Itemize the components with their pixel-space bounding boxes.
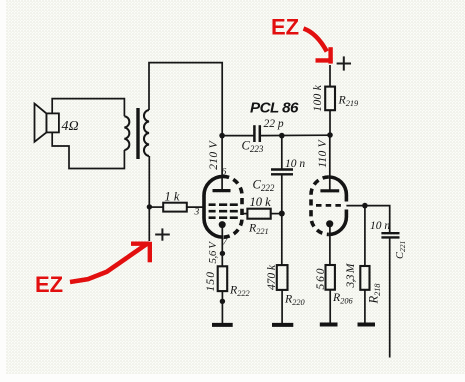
pentode envelope (left half solid) (204, 176, 223, 237)
ground under R222 (212, 323, 233, 327)
node C222 top junction (279, 133, 285, 139)
svg-text:7: 7 (223, 238, 229, 248)
wire R220 to ground (281, 290, 283, 323)
node feedback junction (147, 204, 152, 209)
wire HT rail right segment (260, 134, 330, 136)
svg-text:6: 6 (222, 168, 227, 178)
triode anode lead (329, 135, 331, 191)
wire R218 to ground (364, 290, 366, 323)
triode cathode lead to R206 (329, 227, 331, 266)
svg-text:C221: C221 (395, 241, 407, 259)
wire R221 to node (271, 213, 282, 215)
ground under R218 (358, 323, 376, 327)
pentode anode bar (213, 189, 231, 192)
svg-text:150: 150 (205, 272, 217, 292)
wire junction to resistor 1k (149, 206, 163, 208)
resistor R222 150 (218, 266, 228, 291)
svg-text:R206: R206 (332, 290, 354, 305)
triode grid dashed (316, 204, 344, 207)
node cathode junction (220, 251, 225, 256)
svg-text:R221: R221 (248, 221, 269, 236)
wire C222 top (281, 136, 283, 169)
wire R206 to ground (329, 290, 331, 323)
pentode cathode lead to R222 (221, 227, 223, 266)
svg-text:EZ: EZ (35, 272, 63, 297)
pentode envelope (right half dashed) (223, 176, 242, 237)
pentode cathode (219, 221, 226, 228)
node HT junction (327, 132, 333, 138)
capacitor C223 22p plates (254, 125, 259, 142)
triode anode bar (320, 189, 339, 192)
svg-text:PCL 86: PCL 86 (250, 100, 299, 117)
ground under R220 (272, 323, 293, 327)
white scan margins (0, 374, 465, 382)
svg-text:470 k: 470 k (266, 264, 278, 290)
svg-text:4Ω: 4Ω (62, 119, 79, 134)
wire top supply stub (329, 65, 331, 87)
svg-text:110 V: 110 V (317, 138, 329, 167)
transformer secondary winding (124, 116, 129, 150)
svg-text:560: 560 (315, 268, 327, 289)
wire grid node down to R218 (364, 206, 366, 266)
node grid junction (362, 203, 368, 209)
resistor R219 100k (325, 87, 335, 111)
node pentode anode junction (219, 133, 225, 139)
svg-text:3,3 M: 3,3 M (345, 262, 357, 288)
pentode grid dashes (209, 205, 238, 218)
triode envelope (left half dashed) (311, 177, 329, 234)
wire speaker bottom loop (52, 132, 124, 168)
resistor R218 3,3M (360, 266, 369, 290)
svg-text:R220: R220 (284, 292, 306, 307)
test point + top (337, 56, 351, 70)
resistor R221 10k (247, 209, 270, 219)
svg-text:R222: R222 (229, 283, 250, 298)
resistor 1k (163, 203, 187, 212)
ground under R206 (320, 323, 338, 327)
svg-text:210 V: 210 V (208, 139, 220, 169)
transformer core (136, 108, 139, 159)
node below R222 (220, 299, 225, 304)
wire R222 to ground (221, 291, 223, 323)
speaker LS 4Ω (35, 104, 59, 142)
node R221 junction (279, 211, 285, 217)
wire C222 bottom to R220 (281, 174, 283, 265)
arrow EZ top (304, 29, 327, 52)
capacitor C221 10n plates (381, 233, 399, 237)
svg-text:R219: R219 (338, 93, 360, 108)
wire triode grid to node (346, 205, 365, 207)
arrow EZ bottom (70, 244, 148, 283)
resistor R220 470k (277, 265, 288, 290)
capacitor C222 10n plates (271, 170, 293, 175)
wire C221 down (389, 237, 391, 357)
svg-text:1 k: 1 k (165, 190, 180, 204)
wire grid node to C221 (365, 206, 390, 232)
wire 1k to pentode grid pin 3 (187, 206, 204, 208)
wire primary bottom feedback stub (148, 156, 150, 241)
test point + bottom (155, 228, 170, 240)
svg-text:C222: C222 (253, 178, 275, 194)
svg-text:10 k: 10 k (250, 195, 272, 209)
pentode anode lead (221, 136, 223, 191)
svg-text:3: 3 (194, 208, 200, 218)
triode cathode (326, 220, 333, 227)
svg-text:10 n: 10 n (370, 220, 390, 232)
wire R219 to triode anode (329, 110, 331, 135)
transformer primary winding (144, 110, 149, 156)
pentode screen lead to R221 (242, 213, 247, 215)
resistor R206 560 (326, 265, 335, 290)
svg-text:22 p: 22 p (264, 118, 284, 130)
wire primary top to anode rail (149, 63, 222, 136)
svg-text:100 k: 100 k (312, 84, 324, 111)
triode envelope (right half solid, gap at grid) (329, 177, 347, 234)
svg-text:10 n: 10 n (285, 158, 305, 170)
wire HT rail left segment (222, 135, 254, 137)
svg-text:EZ: EZ (271, 15, 299, 40)
svg-text:5,6 V: 5,6 V (207, 241, 219, 264)
wire speaker top loop (52, 99, 124, 117)
